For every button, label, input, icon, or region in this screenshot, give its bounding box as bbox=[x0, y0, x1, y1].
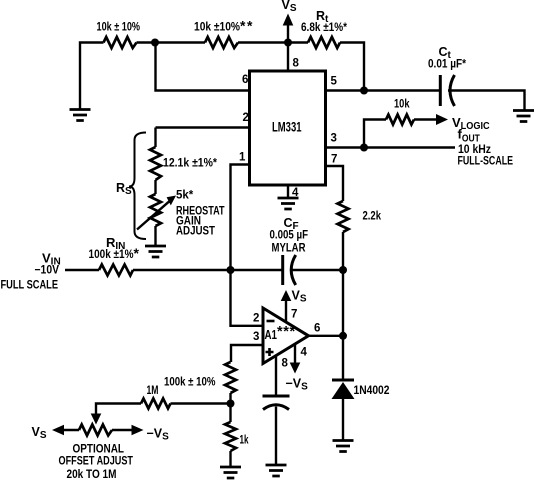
svg-text:MYLAR: MYLAR bbox=[272, 243, 307, 255]
svg-text:FULL-SCALE: FULL-SCALE bbox=[458, 156, 514, 168]
wire bbox=[231, 269, 282, 271]
pin 7 op-amp VS bbox=[281, 289, 307, 322]
svg-text:ADJUST: ADJUST bbox=[176, 226, 215, 238]
potentiometer offset adjust bbox=[52, 425, 144, 480]
svg-text:7: 7 bbox=[291, 309, 297, 321]
svg-text:10k: 10k bbox=[394, 99, 410, 111]
svg-text:8: 8 bbox=[282, 358, 289, 370]
pin 8 bbox=[288, 43, 300, 72]
wire bbox=[154, 128, 156, 148]
op-amp A1 bbox=[253, 308, 309, 364]
svg-text:5: 5 bbox=[331, 76, 338, 88]
svg-text:7: 7 bbox=[331, 154, 337, 166]
node B (VS junction) bbox=[284, 39, 292, 47]
ground (top left) bbox=[70, 110, 91, 121]
resistor R4 2.2k bbox=[338, 201, 382, 232]
wire arrow to VLOGIC bbox=[414, 114, 448, 125]
wire bbox=[80, 43, 104, 111]
svg-text:2: 2 bbox=[253, 313, 259, 325]
pin 6 op-amp output bbox=[309, 323, 344, 336]
brace RS bbox=[116, 133, 146, 240]
wire bbox=[133, 269, 231, 271]
wire bbox=[231, 270, 264, 326]
node C (pin5 junction) bbox=[360, 87, 368, 95]
ground (bypass cap) bbox=[266, 465, 287, 476]
svg-text:FULL SCALE: FULL SCALE bbox=[1, 280, 59, 292]
svg-text:4: 4 bbox=[301, 347, 308, 359]
wire bbox=[154, 226, 156, 246]
svg-text:0.005 µF: 0.005 µF bbox=[270, 230, 309, 242]
wire bbox=[231, 345, 263, 362]
svg-text:3: 3 bbox=[331, 133, 337, 145]
resistor Rt 6.8k ±1%* bbox=[301, 9, 347, 48]
resistor R6 1k bbox=[225, 422, 249, 451]
node A (10k junction) bbox=[151, 39, 159, 47]
svg-text:1: 1 bbox=[239, 152, 246, 164]
wire bbox=[65, 269, 99, 271]
svg-text:1N4002: 1N4002 bbox=[354, 385, 390, 397]
wire bbox=[342, 399, 344, 440]
diode D1 1N4002 bbox=[332, 380, 390, 399]
wire bbox=[154, 180, 156, 194]
svg-text:2.2k: 2.2k bbox=[363, 211, 382, 223]
power VS (top) bbox=[282, 0, 297, 43]
node D (pin3 junction) bbox=[360, 144, 368, 152]
svg-text:10k ± 10%: 10k ± 10% bbox=[97, 22, 141, 34]
svg-text:1k: 1k bbox=[240, 435, 249, 447]
svg-text:−10V: −10V bbox=[35, 265, 60, 277]
resistor R7 1M bbox=[141, 385, 171, 409]
pin 6 bbox=[156, 43, 250, 91]
svg-text:LM331: LM331 bbox=[272, 120, 302, 135]
resistor RS1 12.1k ±1%* bbox=[150, 147, 217, 180]
svg-text:3: 3 bbox=[253, 331, 259, 343]
wire wiper arrow bbox=[91, 404, 141, 425]
wire bbox=[229, 393, 231, 422]
svg-text:20k TO 1M: 20k TO 1M bbox=[67, 469, 117, 480]
ground (rheostat) bbox=[145, 246, 166, 257]
wire bbox=[275, 407, 277, 466]
svg-text:OPTIONAL: OPTIONAL bbox=[73, 444, 125, 456]
svg-text:6: 6 bbox=[314, 323, 320, 335]
IC U1 LM331 bbox=[250, 71, 326, 185]
svg-text:2: 2 bbox=[243, 112, 249, 124]
wire bbox=[137, 41, 206, 43]
ground (top right) bbox=[513, 111, 534, 122]
wire bbox=[171, 402, 231, 404]
node G (output junction) bbox=[339, 332, 347, 340]
wire bbox=[340, 43, 364, 91]
pin 7 bbox=[326, 154, 344, 202]
wire bbox=[290, 269, 343, 271]
node E (summing junction) bbox=[227, 266, 235, 274]
pin 3 bbox=[326, 133, 456, 148]
svg-text:0.01 µF*: 0.01 µF* bbox=[428, 59, 466, 71]
ground (pin 4) bbox=[278, 198, 299, 209]
svg-text:5k*: 5k* bbox=[176, 190, 194, 202]
wire bbox=[342, 232, 344, 270]
ground (diode) bbox=[333, 441, 354, 452]
svg-text:10 kHz: 10 kHz bbox=[458, 144, 491, 156]
wire bbox=[342, 270, 344, 380]
resistor R2 10k ±10%** bbox=[194, 18, 254, 49]
resistor R5 100k ±10% bbox=[164, 362, 236, 393]
rheostat 5k gain adjust bbox=[137, 190, 225, 238]
pin 8 op-amp bbox=[276, 356, 289, 396]
svg-text:8: 8 bbox=[293, 58, 300, 70]
node H (offset junction) bbox=[227, 400, 235, 408]
resistor R1 10k ±10% bbox=[97, 22, 141, 49]
svg-text:OFFSET ADJUST: OFFSET ADJUST bbox=[59, 456, 134, 468]
capacitor CF 0.005uF mylar bbox=[270, 216, 309, 285]
svg-text:6: 6 bbox=[242, 74, 248, 86]
svg-text:100k ± 10%: 100k ± 10% bbox=[164, 377, 216, 389]
capacitor (op-amp bypass) bbox=[263, 396, 290, 410]
wire bbox=[448, 91, 525, 111]
pin 4 bbox=[288, 185, 299, 199]
source VIN bbox=[1, 251, 61, 292]
pin 5 bbox=[326, 76, 440, 91]
pin 4 op-amp -VS bbox=[286, 345, 309, 393]
node F (feedback junction) bbox=[339, 266, 347, 274]
capacitor Ct 0.01uF* bbox=[428, 45, 466, 106]
ground (1k) bbox=[220, 467, 241, 478]
wire bbox=[229, 451, 231, 467]
svg-text:12.1k ±1%*: 12.1k ±1%* bbox=[163, 158, 217, 170]
pin 1 bbox=[231, 152, 250, 271]
pin 2 bbox=[156, 112, 250, 128]
svg-text:1M: 1M bbox=[147, 385, 159, 397]
resistor RIN 100k ±1%* bbox=[89, 235, 140, 276]
wire bbox=[238, 41, 308, 43]
svg-text:6.8k ±1%*: 6.8k ±1%* bbox=[301, 22, 347, 34]
resistor R3 10k (logic) bbox=[364, 99, 414, 148]
